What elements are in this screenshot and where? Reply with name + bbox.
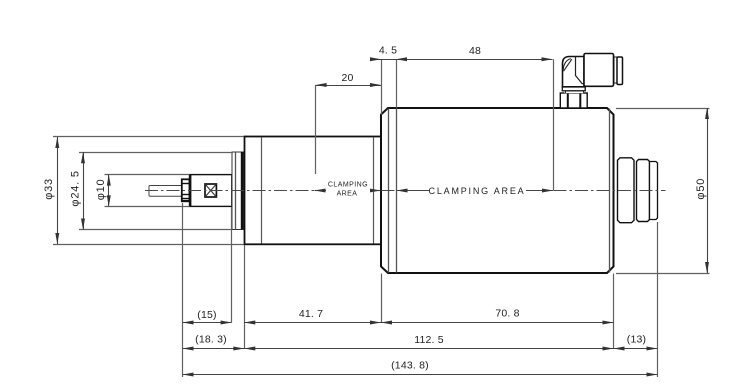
svg-text:(15): (15) xyxy=(197,309,216,321)
svg-text:φ24. 5: φ24. 5 xyxy=(69,170,81,206)
svg-text:48: 48 xyxy=(469,45,481,57)
svg-text:(18. 3): (18. 3) xyxy=(195,334,227,346)
svg-text:φ50: φ50 xyxy=(695,178,707,200)
svg-text:20: 20 xyxy=(341,72,353,84)
svg-text:112. 5: 112. 5 xyxy=(414,334,444,346)
svg-text:41. 7: 41. 7 xyxy=(299,308,323,320)
svg-text:φ33: φ33 xyxy=(43,178,55,200)
svg-text:70. 8: 70. 8 xyxy=(495,308,519,320)
svg-text:(13): (13) xyxy=(627,334,646,346)
svg-text:4. 5: 4. 5 xyxy=(379,45,397,57)
svg-text:(143. 8): (143. 8) xyxy=(391,360,429,372)
svg-text:CLAMPING: CLAMPING xyxy=(328,182,368,189)
svg-text:AREA: AREA xyxy=(337,191,358,198)
svg-text:CLAMPING AREA: CLAMPING AREA xyxy=(429,186,526,196)
svg-text:φ10: φ10 xyxy=(95,179,107,201)
